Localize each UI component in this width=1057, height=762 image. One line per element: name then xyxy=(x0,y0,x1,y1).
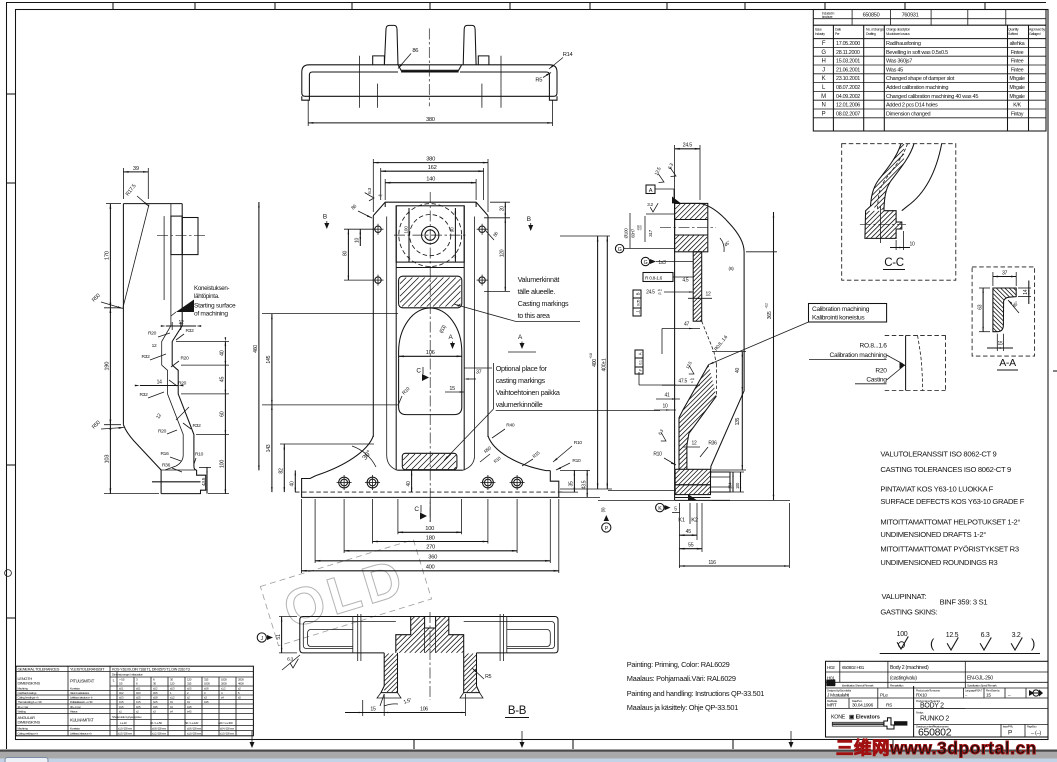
svg-text:C-C: C-C xyxy=(884,257,904,269)
svg-text:EN-GJL-250: EN-GJL-250 xyxy=(967,676,993,682)
svg-text:VALUPINNAT:: VALUPINNAT: xyxy=(882,592,927,601)
svg-text:RUNKO 2: RUNKO 2 xyxy=(920,716,949,723)
svg-text:R36: R36 xyxy=(162,463,171,469)
hub circles xyxy=(399,204,462,267)
top view left tab xyxy=(373,56,385,65)
C-C hatch wall xyxy=(862,143,904,243)
B-B flange top lines xyxy=(353,616,507,618)
svg-text:R10: R10 xyxy=(195,452,204,458)
C-C foot hatch xyxy=(865,211,902,239)
svg-text:Hitsaus: Hitsaus xyxy=(70,710,78,714)
svg-text:Changed shape of damper slot: Changed shape of damper slot xyxy=(886,76,955,82)
svg-text:143: 143 xyxy=(266,444,272,452)
svg-text:55: 55 xyxy=(688,543,694,549)
left view dims 170 190 103 xyxy=(106,203,121,205)
left flare 30deg xyxy=(316,436,374,476)
section view outline xyxy=(674,203,676,469)
top view centerlines xyxy=(428,29,430,107)
svg-text:to this area: to this area xyxy=(518,311,550,320)
svg-text:B: B xyxy=(323,213,327,220)
svg-text:0.05: 0.05 xyxy=(636,300,640,306)
svg-text:86: 86 xyxy=(412,48,418,54)
svg-text:K: K xyxy=(822,76,826,82)
svg-text:162: 162 xyxy=(428,165,437,171)
svg-text:35: 35 xyxy=(569,481,575,486)
svg-text:±0.4 / 100 mm: ±0.4 / 100 mm xyxy=(220,727,235,731)
B-B leg flares xyxy=(377,693,401,698)
section top block hatched xyxy=(675,203,708,251)
svg-text:120 < L ≤ 400: 120 < L ≤ 400 xyxy=(218,721,233,725)
dim 106 xyxy=(399,355,462,357)
svg-text:Casting markings: Casting markings xyxy=(518,299,569,308)
svg-text:+0.8: +0.8 xyxy=(589,353,593,359)
B-B dims xyxy=(279,616,297,618)
svg-text:DHC: DHC xyxy=(827,681,836,686)
svg-text:±0.8: ±0.8 xyxy=(153,696,158,700)
svg-text:⊥: ⊥ xyxy=(636,310,642,314)
svg-text:P: P xyxy=(822,111,826,117)
svg-text:14: 14 xyxy=(157,379,162,385)
svg-text:RX10: RX10 xyxy=(916,693,927,699)
svg-text:Calibration machining: Calibration machining xyxy=(829,352,887,359)
revision table xyxy=(813,10,1046,132)
svg-text:K/K: K/K xyxy=(1013,103,1021,109)
B-B section plane ticks xyxy=(357,614,359,661)
svg-text:190: 190 xyxy=(105,362,111,371)
svg-text:±1.2: ±1.2 xyxy=(221,687,226,691)
left view plate left edge with jogs xyxy=(162,204,184,470)
svg-text:KOS-Y.63.09, DIN 7168 T1, DIN: KOS-Y.63.09, DIN 7168 T1, DIN 6570 T1, D… xyxy=(112,667,190,671)
svg-text:R20: R20 xyxy=(180,356,189,362)
svg-text:21.06.2001: 21.06.2001 xyxy=(836,67,860,73)
svg-text:Mhgale: Mhgale xyxy=(1009,94,1025,100)
svg-text:Industry: Industry xyxy=(815,32,825,36)
svg-text:±1.5: ±1.5 xyxy=(119,705,124,709)
calibration machining boxed note xyxy=(809,304,887,323)
C-C hook section outline xyxy=(865,144,902,239)
svg-text:4.5: 4.5 xyxy=(682,278,689,284)
svg-text:(casting/valu): (casting/valu) xyxy=(890,676,917,682)
svg-text:106: 106 xyxy=(420,706,428,712)
svg-text:116: 116 xyxy=(708,560,716,566)
svg-text:UNDIMENSIONED ROUNDINGS R3: UNDIMENSIONED ROUNDINGS R3 xyxy=(880,558,997,567)
svg-text:Issue/P-Fly: Issue/P-Fly xyxy=(1003,725,1014,729)
left view plate right edge with jogs xyxy=(172,204,196,470)
svg-text:60H7: 60H7 xyxy=(631,228,636,238)
svg-text:365: 365 xyxy=(767,311,773,319)
svg-text:14: 14 xyxy=(1023,289,1029,294)
svg-text:140: 140 xyxy=(426,177,435,183)
svg-text:Koneistus: Koneistus xyxy=(70,727,80,731)
J marker xyxy=(257,633,266,642)
svg-text:15: 15 xyxy=(370,706,376,712)
svg-text:Was 45: Was 45 xyxy=(886,67,903,73)
svg-text:R16: R16 xyxy=(160,451,169,457)
B-B bottom dims 15 106 xyxy=(383,694,385,716)
zone tick marks top xyxy=(112,3,114,10)
svg-text:400: 400 xyxy=(592,359,598,367)
svg-text:120: 120 xyxy=(170,682,175,686)
svg-text:RO.8...1.6: RO.8...1.6 xyxy=(860,343,888,350)
svg-text:R20: R20 xyxy=(148,331,157,337)
svg-text:60: 60 xyxy=(220,411,226,417)
svg-text:04.09.2002: 04.09.2002 xyxy=(836,94,860,100)
svg-text:Fintee: Fintee xyxy=(1011,67,1024,73)
stem inner box xyxy=(399,359,462,415)
svg-text:G: G xyxy=(644,260,648,266)
front view inner wall lines xyxy=(386,217,388,301)
svg-text:50 < L ≤ 120: 50 < L ≤ 120 xyxy=(185,721,199,725)
B-B hatched pedestal top blocks xyxy=(394,617,464,653)
dims right of flange 35 43.5 xyxy=(560,469,590,471)
svg-text:±1.5 / 100 mm: ±1.5 / 100 mm xyxy=(118,731,133,735)
svg-text:±0.1: ±0.1 xyxy=(136,687,141,691)
svg-text:GENERAL TOLERANCES: GENERAL TOLERANCES xyxy=(18,666,60,671)
dims left of front view xyxy=(262,313,398,315)
svg-text:Body 2 (machined): Body 2 (machined) xyxy=(890,665,929,671)
svg-text:Welding: Welding xyxy=(18,710,27,714)
svg-text:N: N xyxy=(821,103,825,109)
casting markings hatch area 1 xyxy=(399,276,462,308)
svg-text:tälle alueelle.: tälle alueelle. xyxy=(518,287,556,296)
top dim 24.5 xyxy=(674,145,676,200)
svg-text:PITUUSMITAT: PITUUSMITAT xyxy=(70,679,95,684)
svg-text:Identification Sheet of Remark: Identification Sheet of Remark xyxy=(842,683,874,687)
bottom K markers xyxy=(688,494,697,500)
svg-text:12: 12 xyxy=(692,441,697,447)
svg-text:R20: R20 xyxy=(178,381,187,387)
svg-text:R10: R10 xyxy=(572,458,581,464)
svg-text:三维网www.3dportal.cn: 三维网www.3dportal.cn xyxy=(836,738,1037,758)
svg-text:400±1: 400±1 xyxy=(602,358,608,371)
svg-text:P: P xyxy=(1008,730,1012,737)
front view outer walls xyxy=(372,216,374,437)
svg-text:DIMENSIONS: DIMENSIONS xyxy=(18,720,41,725)
OLD watermark dashed box xyxy=(260,540,431,646)
104 100 small dims right of base xyxy=(732,472,734,492)
A-A detail dashed box xyxy=(972,267,1035,356)
svg-text:Cutting, bending a + b: Cutting, bending a + b xyxy=(18,696,40,700)
svg-text:±4.5: ±4.5 xyxy=(187,710,192,714)
svg-text:Drafting: Drafting xyxy=(866,32,876,36)
svg-text:6.3: 6.3 xyxy=(367,187,373,193)
svg-text:casting markings: casting markings xyxy=(496,376,546,385)
front view centerline xyxy=(429,192,431,522)
svg-text:24.5: 24.5 xyxy=(646,290,655,296)
left view lower left flare to foot xyxy=(123,425,161,494)
svg-text:▣ Elevators: ▣ Elevators xyxy=(849,715,880,721)
svg-text:J Mustalahti: J Mustalahti xyxy=(827,693,849,699)
C-C detail dashed box xyxy=(842,144,956,281)
svg-text:BINF 359: 3 S1: BINF 359: 3 S1 xyxy=(940,598,988,607)
svg-text:45: 45 xyxy=(220,377,226,383)
svg-text:VALUTOLERANSSIT ISO 8062-CT 9: VALUTOLERANSSIT ISO 8062-CT 9 xyxy=(880,450,996,459)
svg-text:08.02.2007: 08.02.2007 xyxy=(836,111,860,117)
svg-text:Suffixed: Suffixed xyxy=(1008,32,1018,36)
B-B legs xyxy=(381,653,398,693)
left view profile outline xyxy=(123,203,182,205)
svg-text:Polttoleikkaus b + c / 30: Polttoleikkaus b + c / 30 xyxy=(70,700,93,704)
svg-text:Kalibrointi koneistus: Kalibrointi koneistus xyxy=(812,315,865,322)
svg-text:45: 45 xyxy=(686,529,692,535)
svg-text:C: C xyxy=(414,506,419,513)
svg-text:Mhgale: Mhgale xyxy=(1009,85,1025,91)
general tolerances table xyxy=(16,666,253,736)
base flange xyxy=(397,469,463,471)
dim 40 inside flange xyxy=(411,470,413,492)
svg-text:H: H xyxy=(821,59,825,65)
section base right step xyxy=(711,472,731,492)
svg-text:1000: 1000 xyxy=(204,682,210,686)
right dims 20 8.6 120 xyxy=(490,201,510,203)
svg-text:15.03.2001: 15.03.2001 xyxy=(836,59,860,65)
svg-text:±3.5: ±3.5 xyxy=(153,705,158,709)
svg-text:Added 2 pcs D14 holes: Added 2 pcs D14 holes xyxy=(886,103,938,109)
A-A dims xyxy=(992,272,994,286)
svg-text:Page/Sivu: Page/Sivu xyxy=(1027,725,1037,729)
svg-text:MRT: MRT xyxy=(827,703,837,709)
svg-text:BODY 2: BODY 2 xyxy=(920,703,944,710)
svg-text:C: C xyxy=(416,368,421,375)
left view foot top line xyxy=(161,469,197,471)
svg-text:Fintee: Fintee xyxy=(1011,59,1024,65)
svg-text:R32: R32 xyxy=(185,328,194,334)
svg-text:±0.6 / 100 mm: ±0.6 / 100 mm xyxy=(187,727,202,731)
svg-text:4000: 4000 xyxy=(238,682,244,686)
svg-text:3.2: 3.2 xyxy=(1012,632,1021,639)
svg-text:145: 145 xyxy=(266,355,272,363)
C-C dashed centerline xyxy=(878,144,908,211)
zone tick marks left xyxy=(7,93,16,95)
svg-text:30 + c / per: 30 + c / per xyxy=(70,705,81,709)
svg-text:2000: 2000 xyxy=(221,682,227,686)
bottom-left tab xyxy=(5,758,48,762)
svg-text:0.1: 0.1 xyxy=(638,360,642,365)
svg-text:R20: R20 xyxy=(158,429,167,435)
svg-text:R32: R32 xyxy=(139,392,148,398)
svg-text:– (–): – (–) xyxy=(1031,731,1041,737)
left view draft slant line xyxy=(123,205,149,308)
svg-text:CASTING TOLERANCES ISO 8062-CT: CASTING TOLERANCES ISO 8062-CT 9 xyxy=(880,465,1011,474)
svg-text:R14: R14 xyxy=(563,52,574,58)
extension lines below flange xyxy=(300,499,302,573)
svg-text:±0.8 / 100 mm: ±0.8 / 100 mm xyxy=(152,727,167,731)
svg-text:±4.5: ±4.5 xyxy=(204,700,209,704)
svg-text:±1.0 / 100 mm: ±1.0 / 100 mm xyxy=(118,727,133,731)
svg-text:M: M xyxy=(821,94,826,100)
sidewall bolt circles xyxy=(375,226,381,232)
svg-text:08.07.2002: 08.07.2002 xyxy=(836,85,860,91)
top view recess between tabs xyxy=(398,65,462,71)
svg-text:Fintee: Fintee xyxy=(1011,50,1024,56)
left view foot machining line xyxy=(152,481,201,483)
svg-text:±0.5: ±0.5 xyxy=(136,696,141,700)
svg-text:L ≤ 10: L ≤ 10 xyxy=(120,721,127,725)
svg-text:Rem/Save by: Rem/Save by xyxy=(986,689,1000,693)
parallel 0.1 A frame xyxy=(635,350,643,374)
svg-text:180: 180 xyxy=(426,535,435,541)
svg-text:RS: RS xyxy=(886,703,892,709)
left view R leader ticks xyxy=(158,333,170,337)
R 0.8-1.6 box xyxy=(643,273,673,282)
svg-text:(9): (9) xyxy=(601,507,606,512)
svg-text:MITOITTAMATTOMAT PYÖRISTYKSET: MITOITTAMATTOMAT PYÖRISTYKSET R3 xyxy=(880,544,1018,553)
svg-text:Valut .0-valutolerans: Valut .0-valutolerans xyxy=(70,691,90,695)
black triangle marker top xyxy=(672,197,681,204)
svg-text:380: 380 xyxy=(426,117,435,123)
C-C right outline xyxy=(902,144,942,211)
svg-text:R32: R32 xyxy=(192,423,201,429)
svg-text:Dimension changed: Dimension changed xyxy=(886,111,931,117)
left view dim 43.5 xyxy=(199,466,211,468)
svg-text:Calibration machining: Calibration machining xyxy=(812,306,870,313)
svg-text:GASTING SKINS:: GASTING SKINS: xyxy=(880,608,937,617)
svg-text:80: 80 xyxy=(343,251,349,256)
svg-text:Was 360js7: Was 360js7 xyxy=(886,59,912,65)
bottom dims 45 55 116 xyxy=(678,503,680,568)
svg-text:15: 15 xyxy=(986,693,991,699)
svg-text:R32: R32 xyxy=(141,354,150,360)
svg-text:Starting surface: Starting surface xyxy=(194,303,236,310)
svg-text:Muutoksen kuvaus: Muutoksen kuvaus xyxy=(886,32,910,36)
G circles xyxy=(615,244,623,252)
3.2 symbol xyxy=(650,203,658,212)
svg-text:104: 104 xyxy=(727,482,732,489)
svg-text:Maalaus ja käsittely: Ohje QP-: Maalaus ja käsittely: Ohje QP-33.501 xyxy=(627,703,738,712)
svg-text:3.2: 3.2 xyxy=(647,202,653,208)
svg-text:37: 37 xyxy=(476,369,482,375)
bottom blue strip xyxy=(0,759,1057,762)
svg-text:47: 47 xyxy=(684,322,689,328)
section left vertical edge lower xyxy=(674,469,676,500)
svg-text:Leikkaus, taivutus a + b: Leikkaus, taivutus a + b xyxy=(70,696,93,700)
svg-text:±1.5: ±1.5 xyxy=(136,700,141,704)
svg-text:Shorter side / Lyhyempi sivu: Shorter side / Lyhyempi sivu xyxy=(112,715,142,719)
top surface symbols xyxy=(655,174,666,185)
svg-text:±0.2: ±0.2 xyxy=(119,691,124,695)
svg-text:Machining: Machining xyxy=(18,727,29,731)
svg-text:100: 100 xyxy=(897,631,908,638)
svg-text:40: 40 xyxy=(735,368,741,373)
svg-text:(6): (6) xyxy=(729,266,735,272)
svg-text:R10: R10 xyxy=(574,440,583,446)
svg-text:Painting and handling: Instruc: Painting and handling: Instructions QP-3… xyxy=(627,689,764,698)
svg-text:317: 317 xyxy=(648,229,653,237)
svg-text:Radihausfoning: Radihausfoning xyxy=(886,41,921,47)
6.3 symbol top xyxy=(365,193,374,201)
svg-text:±0.1: ±0.1 xyxy=(119,687,124,691)
svg-text:10: 10 xyxy=(355,238,361,243)
svg-text:17.05.2000: 17.05.2000 xyxy=(836,41,860,47)
svg-text:Gallaged: Gallaged xyxy=(1029,32,1041,36)
svg-text:±0.3: ±0.3 xyxy=(119,696,124,700)
svg-text:±2.5: ±2.5 xyxy=(136,705,141,709)
svg-text:460: 460 xyxy=(253,345,259,353)
svg-text:UNDIMENSIONED DRAFTS 1-2°: UNDIMENSIONED DRAFTS 1-2° xyxy=(880,530,986,539)
svg-text:51: 51 xyxy=(276,634,282,640)
title block xyxy=(826,661,1049,737)
svg-text:L: L xyxy=(113,679,115,683)
dim 37 15 xyxy=(464,367,492,369)
left view jog dims 12 14 12 xyxy=(166,325,196,327)
svg-text:37: 37 xyxy=(1002,270,1008,276)
vertical dims 400 right of front view xyxy=(560,235,610,237)
svg-text:R 0.8-1.6: R 0.8-1.6 xyxy=(645,276,663,282)
svg-text:Cutting, welding a + b: Cutting, welding a + b xyxy=(18,731,39,735)
svg-text:Thermal cutting b + c / 30: Thermal cutting b + c / 30 xyxy=(18,700,43,704)
zone tick marks bottom xyxy=(413,740,415,750)
svg-text:41: 41 xyxy=(665,393,670,399)
svg-text:of machining: of machining xyxy=(194,311,228,318)
svg-text:G: G xyxy=(618,247,622,253)
svg-text:Cast/Sand castings: Cast/Sand castings xyxy=(18,691,38,695)
svg-text:650850: 650850 xyxy=(863,13,880,19)
svg-text:Machining: Machining xyxy=(18,687,29,691)
svg-text:altehka: altehka xyxy=(1010,41,1025,47)
svg-text:63: 63 xyxy=(977,304,983,309)
svg-text:10: 10 xyxy=(910,242,915,248)
svg-text:Designed by/Suunnitellut: Designed by/Suunnitellut xyxy=(827,689,851,693)
svg-text:40: 40 xyxy=(220,350,226,356)
svg-text:Valumerkinnät: Valumerkinnät xyxy=(518,275,560,284)
svg-text:170: 170 xyxy=(105,251,111,260)
svg-text:A: A xyxy=(649,188,653,194)
punch hole mark left edge xyxy=(5,570,12,577)
svg-text:100: 100 xyxy=(425,526,434,532)
svg-text:43.5: 43.5 xyxy=(201,477,207,486)
svg-text:Nimitys: Nimitys xyxy=(916,711,924,715)
svg-text:10: 10 xyxy=(663,404,668,410)
svg-text:380: 380 xyxy=(426,156,435,162)
svg-text:Language/RSA 7: Language/RSA 7 xyxy=(965,689,983,693)
svg-text:23.10.2001: 23.10.2001 xyxy=(836,76,860,82)
svg-text:R10: R10 xyxy=(653,452,662,458)
svg-text:Specification Specif Remark: Specification Specif Remark xyxy=(967,683,997,687)
svg-text:R5: R5 xyxy=(485,674,491,680)
svg-text:12: 12 xyxy=(706,292,711,298)
svg-text:40: 40 xyxy=(290,481,296,486)
svg-text:360: 360 xyxy=(428,555,437,561)
svg-text:DIMENSIONS: DIMENSIONS xyxy=(18,681,41,686)
svg-text:270: 270 xyxy=(426,545,435,551)
svg-text:100: 100 xyxy=(220,460,226,468)
bottom gray bar xyxy=(0,750,1057,759)
svg-text:+0.2: +0.2 xyxy=(764,303,768,309)
svg-text:6.3: 6.3 xyxy=(981,632,990,639)
svg-text:47.5: 47.5 xyxy=(678,378,687,384)
svg-text:Fintay: Fintay xyxy=(1011,111,1024,117)
svg-text:135: 135 xyxy=(735,417,741,425)
detail curves xyxy=(905,335,907,390)
section base hatched xyxy=(675,469,710,485)
svg-text:15: 15 xyxy=(998,341,1003,347)
front view top box xyxy=(396,206,464,262)
svg-text:): ) xyxy=(1031,636,1035,651)
svg-text:R5: R5 xyxy=(535,77,542,83)
svg-text:Date/Pvm: Date/Pvm xyxy=(852,699,863,703)
svg-text:Rst./Reste: Rst./Reste xyxy=(827,699,838,703)
12.5 symbol mid xyxy=(685,366,696,377)
svg-text:Painting: Priming, Color: RAL6: Painting: Priming, Color: RAL6029 xyxy=(627,660,730,669)
svg-text:±0.3: ±0.3 xyxy=(136,691,141,695)
svg-text:±4.5: ±4.5 xyxy=(187,705,192,709)
top view right tab xyxy=(478,56,489,65)
svg-text:400: 400 xyxy=(426,565,435,571)
svg-text:Bevelling in soft was 0.5x0.5: Bevelling in soft was 0.5x0.5 xyxy=(886,50,948,56)
B-B left end cap xyxy=(300,617,384,653)
svg-text:Casting: Casting xyxy=(866,376,887,383)
svg-text:±0.5: ±0.5 xyxy=(153,691,158,695)
